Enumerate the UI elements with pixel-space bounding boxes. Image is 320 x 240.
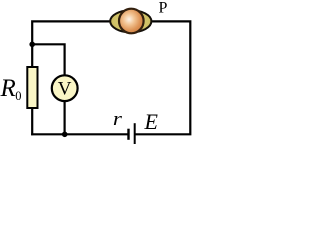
svg-text:P: P (159, 0, 168, 17)
svg-text:E: E (144, 109, 159, 134)
svg-text:0: 0 (15, 89, 21, 103)
svg-text:V: V (58, 79, 72, 100)
svg-text:R: R (0, 75, 16, 102)
svg-text:r: r (113, 108, 123, 130)
